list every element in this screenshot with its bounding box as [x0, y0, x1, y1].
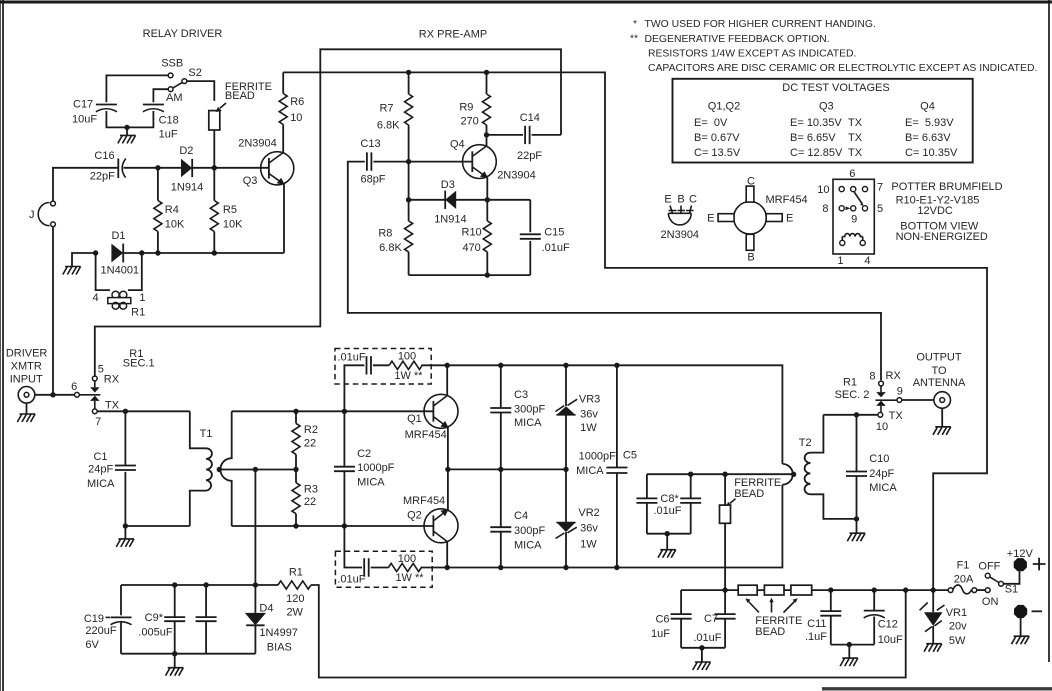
svg-text:1000pF: 1000pF — [357, 462, 395, 474]
svg-text:C19: C19 — [84, 613, 104, 625]
svg-text:S2: S2 — [188, 67, 201, 79]
junction ferrite bead line — [722, 472, 727, 477]
svg-text:E= 5.93V: E= 5.93V — [905, 117, 954, 129]
svg-text:R10: R10 — [462, 227, 482, 239]
svg-text:E: E — [786, 213, 793, 225]
+12V power rail wire — [283, 72, 987, 590]
svg-text:MRF454: MRF454 — [403, 495, 445, 507]
transformer T2 primary hop — [782, 464, 792, 485]
bias top rail — [121, 584, 278, 586]
wire R9 junction to C14 — [487, 134, 524, 136]
svg-text:C: C — [689, 194, 697, 206]
svg-text:1W **: 1W ** — [395, 572, 424, 584]
svg-text:RESISTORS 1/4W EXCEPT AS INDIC: RESISTORS 1/4W EXCEPT AS INDICATED. — [648, 48, 856, 59]
svg-text:5W: 5W — [949, 635, 966, 647]
resistor R1 bias — [278, 581, 311, 589]
svg-text:MICA: MICA — [357, 476, 385, 488]
svg-text:24pF: 24pF — [88, 464, 113, 476]
relay sec1 armature arrows — [79, 381, 100, 409]
svg-text:MRF454: MRF454 — [766, 194, 808, 206]
transformer T2 secondary — [805, 415, 857, 519]
capacitor C6 — [671, 590, 692, 648]
capacitor C9 — [164, 585, 185, 654]
svg-text:B: B — [677, 194, 684, 206]
svg-text:1N914: 1N914 — [171, 182, 203, 194]
C19 leader — [106, 616, 111, 618]
junction Q4 emitter / R10 — [485, 197, 490, 202]
wire R1 to bottom feed — [311, 585, 906, 678]
svg-text:INPUT: INPUT — [10, 373, 43, 385]
svg-text:.01uF: .01uF — [693, 632, 721, 644]
junction R4 bottom — [155, 250, 160, 255]
svg-text:1W: 1W — [580, 422, 597, 434]
Q2 collector wire — [446, 542, 448, 568]
capacitor C13 — [367, 152, 372, 170]
ground below C8 — [666, 534, 668, 550]
junction emitters — [445, 467, 450, 472]
junction R7 top — [406, 70, 411, 75]
svg-text:SEC.1: SEC.1 — [123, 357, 155, 369]
junction bead/D2 — [212, 165, 217, 170]
svg-text:C2: C2 — [357, 448, 371, 460]
relay R1 sec1 contact 6 — [75, 392, 80, 397]
svg-text:R3: R3 — [304, 483, 318, 495]
diode D2 — [181, 159, 192, 177]
svg-text:TO: TO — [931, 365, 947, 377]
transformer T1 primary — [190, 411, 212, 526]
capacitor C10 — [846, 415, 867, 519]
svg-text:6.8K: 6.8K — [379, 242, 402, 254]
zener VR2 — [556, 469, 577, 567]
svg-text:C18: C18 — [159, 114, 179, 126]
wire preamp output loop (C14 to relay RX contact 5) — [95, 49, 561, 378]
svg-text:B: B — [747, 252, 754, 264]
zener VR1 — [920, 590, 945, 644]
svg-text:+12V: +12V — [1007, 548, 1034, 560]
svg-text:D4: D4 — [259, 602, 273, 614]
wire C13 to Q4 base — [373, 161, 472, 163]
wire S1 to +12V terminal — [1003, 571, 1019, 584]
TX wire contact7 to T1 — [97, 410, 190, 412]
ground below C1 — [124, 526, 126, 539]
svg-text:Q3: Q3 — [243, 175, 258, 187]
wire bead line down — [724, 474, 726, 590]
svg-text:.01uF: .01uF — [542, 242, 570, 254]
svg-text:6: 6 — [71, 381, 77, 393]
svg-text:C11: C11 — [807, 618, 826, 630]
bottom shadow bar — [822, 687, 1052, 690]
resistor R8 — [408, 200, 410, 275]
junction C11 top — [828, 587, 833, 592]
svg-text:120: 120 — [286, 593, 304, 605]
junction C7/bead line — [722, 587, 727, 592]
relay R1 sec2 contact 9 — [897, 398, 902, 403]
junction R2 top — [293, 409, 298, 414]
switch S2 wire to SSB contact — [106, 75, 168, 102]
svg-text:Q4: Q4 — [920, 101, 935, 113]
capacitor C19 — [111, 585, 132, 654]
ferrite bead 2 — [764, 585, 784, 595]
svg-text:5: 5 — [877, 203, 883, 215]
resistor R5 — [213, 168, 215, 253]
svg-text:**: ** — [630, 34, 638, 45]
svg-text:VR2: VR2 — [578, 507, 599, 519]
+12V feed wire — [681, 589, 948, 591]
capacitor C17 — [96, 105, 117, 112]
svg-text:TX: TX — [105, 399, 120, 411]
upper feedback dashed box — [335, 349, 431, 385]
svg-text:10uF: 10uF — [878, 634, 903, 646]
svg-text:8: 8 — [869, 371, 875, 383]
svg-text:10K: 10K — [223, 219, 243, 231]
svg-text:22: 22 — [304, 438, 316, 450]
svg-text:C10: C10 — [869, 453, 889, 465]
svg-text:R1: R1 — [289, 567, 303, 579]
svg-text:.01uF: .01uF — [338, 352, 366, 364]
terminal minus — [1014, 605, 1027, 618]
connector J terminal bottom — [51, 222, 56, 227]
junction D4 top — [253, 582, 258, 587]
svg-text:SEC. 2: SEC. 2 — [835, 389, 870, 401]
capacitor C8 left — [636, 474, 657, 534]
relay R1 sec1 contact 7 — [92, 409, 97, 414]
transformer T1 secondary — [220, 411, 231, 526]
junction bottom feed loop — [903, 587, 908, 592]
svg-text:BEAD: BEAD — [755, 626, 785, 638]
svg-text:E= 0V: E= 0V — [694, 117, 728, 129]
svg-text:CAPACITORS ARE DISC CERAMIC OR: CAPACITORS ARE DISC CERAMIC OR ELECTROLY… — [648, 63, 1037, 74]
C11/C12 bottom wire — [831, 644, 874, 646]
svg-text:R9: R9 — [459, 102, 473, 114]
junction C11/C12 ground — [847, 642, 852, 647]
wire bias feed down — [254, 470, 256, 586]
relay coil R1 legs — [96, 253, 142, 290]
svg-text:F1: F1 — [957, 559, 970, 571]
ground below C11/C12 — [848, 645, 850, 659]
junction C13/R7 — [406, 159, 411, 164]
svg-text:1W **: 1W ** — [394, 370, 423, 382]
junction C12 top — [872, 587, 877, 592]
ground below VR1 — [924, 644, 942, 652]
ground left — [63, 267, 81, 275]
connector J arc — [38, 203, 49, 226]
resistor R2 — [295, 411, 297, 469]
svg-text:C4: C4 — [514, 510, 528, 522]
capacitor C5 — [606, 365, 627, 567]
ground below C17/C18 — [126, 127, 128, 135]
svg-text:R1: R1 — [843, 377, 857, 389]
svg-text:7: 7 — [877, 182, 883, 194]
Q1 emitter wire — [447, 428, 449, 470]
svg-text:ON: ON — [982, 596, 999, 608]
svg-text:C16: C16 — [94, 150, 114, 162]
junction bias ground — [172, 651, 177, 656]
junction C8 right cap — [688, 472, 693, 477]
lower feedback dashed box — [335, 551, 432, 587]
svg-text:Q1,Q2: Q1,Q2 — [708, 101, 740, 113]
resistor R4 — [157, 168, 159, 253]
svg-text:22pF: 22pF — [90, 170, 115, 182]
svg-text:MICA: MICA — [514, 417, 542, 429]
svg-text:SSB: SSB — [161, 58, 183, 70]
svg-text:XMTR: XMTR — [11, 360, 42, 372]
junction C9 top — [172, 582, 177, 587]
minus sign — [1032, 610, 1042, 612]
capacitor C1 — [115, 411, 136, 526]
svg-text:C13: C13 — [360, 138, 380, 150]
junction R5 bottom — [212, 250, 217, 255]
diode D1 — [111, 244, 123, 263]
transistor Q3 — [261, 152, 294, 253]
svg-text:FERRITE: FERRITE — [734, 477, 781, 489]
switch S1 common contact — [999, 581, 1004, 586]
capacitor C16 — [118, 159, 126, 179]
svg-text:300pF: 300pF — [514, 525, 545, 537]
svg-text:36v: 36v — [580, 522, 598, 534]
svg-text:C12: C12 — [878, 618, 898, 630]
svg-text:Q4: Q4 — [450, 139, 465, 151]
svg-text:DC TEST VOLTAGES: DC TEST VOLTAGES — [782, 82, 889, 94]
svg-text:DEGENERATIVE FEEDBACK OPTION.: DEGENERATIVE FEEDBACK OPTION. — [645, 34, 830, 45]
svg-text:20v: 20v — [949, 621, 967, 633]
svg-text:R6: R6 — [290, 96, 304, 108]
svg-text:C8*: C8* — [660, 493, 679, 505]
resistor R10 — [486, 200, 488, 275]
resistor R7 — [408, 72, 410, 161]
svg-text:1N4997: 1N4997 — [259, 627, 298, 639]
capacitor C4 — [490, 469, 511, 567]
svg-text:D2: D2 — [179, 145, 193, 157]
switch S2 lever — [173, 82, 182, 88]
svg-text:RX: RX — [886, 370, 902, 382]
lower feedback capacitor .01uF — [364, 558, 369, 576]
svg-text:2N3904: 2N3904 — [661, 229, 700, 241]
ground below T2/C10 — [856, 519, 858, 533]
svg-text:C7: C7 — [704, 613, 718, 625]
svg-text:MICA: MICA — [514, 540, 542, 552]
junction C3 bottom — [498, 467, 503, 472]
svg-text:Q1: Q1 — [407, 413, 422, 425]
wire bead to D2 junction — [213, 130, 215, 168]
relay coil R1 — [108, 291, 131, 309]
svg-text:B= 6.63V: B= 6.63V — [905, 132, 951, 144]
svg-text:1uF: 1uF — [159, 129, 178, 141]
connector J terminal top — [51, 201, 56, 206]
svg-text:C17: C17 — [73, 98, 93, 110]
svg-text:C= 13.5V: C= 13.5V — [694, 147, 741, 159]
junction D1 cathode — [139, 250, 144, 255]
plus sign — [1033, 558, 1046, 571]
MRF454 pinout drawing — [707, 176, 808, 264]
svg-text:6: 6 — [849, 168, 855, 180]
label R1 SEC.1 — [123, 348, 155, 369]
svg-text:Q2: Q2 — [407, 510, 422, 522]
junction bias feed — [253, 467, 258, 472]
arrow to ferrite bead — [220, 103, 226, 108]
antenna connector — [934, 392, 951, 409]
capacitor C2 — [334, 411, 355, 526]
junction J line — [50, 392, 55, 397]
svg-text:D1: D1 — [111, 230, 125, 242]
relay R1 sec1 contact 5 — [92, 376, 97, 381]
svg-text:R5: R5 — [223, 204, 237, 216]
resistor R9 — [486, 72, 488, 134]
label DRIVER XMTR INPUT — [6, 347, 48, 385]
junction VR1 top — [931, 587, 936, 592]
DC test voltages table — [673, 79, 973, 163]
svg-text:NON-ENERGIZED: NON-ENERGIZED — [896, 231, 988, 243]
ground below C6/C7 — [701, 648, 703, 662]
Q1 collector wire — [446, 365, 448, 395]
wire D2 to Q3 base — [192, 167, 269, 169]
svg-text:10K: 10K — [165, 219, 185, 231]
C8 bottom wire — [647, 533, 691, 535]
wire C14 to loop — [532, 134, 561, 136]
svg-text:POTTER BRUMFIELD: POTTER BRUMFIELD — [891, 181, 1002, 193]
svg-text:220uF: 220uF — [85, 625, 116, 637]
junction C10 bottom — [854, 516, 859, 521]
switch S1 contact ON — [985, 588, 990, 593]
svg-text:100: 100 — [398, 350, 416, 362]
T1 center tap junction — [217, 467, 222, 472]
capacitor C11 — [820, 590, 841, 645]
svg-text:.005uF: .005uF — [138, 626, 173, 638]
ferrite bead 3 — [791, 585, 812, 595]
svg-text:470: 470 — [462, 242, 480, 254]
svg-text:8: 8 — [822, 203, 828, 215]
junction C2 bottom — [342, 523, 347, 528]
switch S2 pivot contact — [182, 79, 187, 84]
svg-text:1: 1 — [837, 255, 843, 267]
svg-text:T2: T2 — [799, 437, 812, 449]
svg-text:C14: C14 — [520, 112, 540, 124]
svg-text:1: 1 — [139, 292, 145, 304]
upper feedback wire — [344, 365, 447, 411]
svg-text:1W: 1W — [580, 538, 597, 550]
svg-text:ANTENNA: ANTENNA — [913, 377, 966, 389]
junction C6/C7 ground — [699, 645, 704, 650]
svg-text:E: E — [664, 194, 671, 206]
capacitor C18 — [143, 105, 164, 112]
svg-text:10: 10 — [817, 184, 829, 196]
Q1 base wire — [232, 410, 433, 412]
svg-text:RX: RX — [104, 374, 120, 386]
svg-text:2N3904: 2N3904 — [497, 170, 536, 182]
wire R7 junction down to D3 rail — [408, 162, 410, 200]
switch S1 lever — [990, 577, 999, 582]
svg-text:7: 7 — [95, 416, 101, 428]
svg-text:TX: TX — [889, 410, 904, 422]
svg-text:J: J — [29, 209, 35, 221]
ferrite bead (relay driver) — [209, 111, 220, 130]
capacitor C15 — [520, 200, 541, 275]
capacitor C8 right — [680, 474, 701, 534]
svg-text:68pF: 68pF — [360, 173, 385, 185]
switch S2 contact SSB — [168, 73, 173, 78]
svg-text:AM: AM — [166, 92, 183, 104]
svg-text:OFF: OFF — [978, 560, 1000, 572]
svg-text:6V: 6V — [85, 639, 99, 651]
junction cap3 top — [203, 582, 208, 587]
svg-text:C6: C6 — [655, 613, 669, 625]
svg-text:R1: R1 — [131, 306, 145, 318]
switch S2 wire to ferrite bead — [187, 81, 215, 101]
svg-text:C= 12.85V: C= 12.85V — [790, 147, 843, 159]
diode D4 — [245, 585, 266, 654]
wire J down to input line — [52, 227, 54, 395]
svg-text:1N4001: 1N4001 — [101, 264, 140, 276]
switch S1 contact OFF — [985, 573, 990, 578]
T1 bottom wire to C1 — [125, 525, 189, 527]
junction C1 top — [123, 409, 128, 414]
svg-text:*: * — [633, 19, 637, 30]
svg-text:RELAY DRIVER: RELAY DRIVER — [143, 28, 223, 40]
svg-text:VR1: VR1 — [946, 607, 967, 619]
junction C5 top — [614, 363, 619, 368]
arrow to bead (T2 feed) — [730, 499, 736, 504]
capacitor C14 — [525, 126, 530, 144]
svg-text:4: 4 — [864, 255, 870, 267]
relay R1 sec2 contact 8 — [879, 381, 884, 386]
svg-text:MRF454: MRF454 — [405, 429, 447, 441]
wire contact9 to antenna connector — [902, 399, 934, 401]
svg-text:OUTPUT: OUTPUT — [916, 351, 962, 363]
svg-text:10: 10 — [876, 421, 888, 433]
ground below bias — [174, 654, 176, 668]
junction D3 left — [406, 197, 411, 202]
bottom collector rail — [447, 485, 782, 568]
transistor Q4 — [463, 135, 497, 200]
relay text block — [891, 181, 1002, 243]
svg-text:20A: 20A — [954, 573, 974, 585]
svg-text:MICA: MICA — [87, 478, 115, 490]
ground below input connector — [26, 403, 28, 414]
svg-text:2W: 2W — [286, 606, 303, 618]
svg-text:TWO USED FOR HIGHER CURRENT HA: TWO USED FOR HIGHER CURRENT HANDING. — [645, 19, 876, 30]
capacitor unlabeled bias — [196, 585, 217, 654]
diode D3 — [445, 191, 456, 209]
svg-text:B= 6.65V: B= 6.65V — [790, 132, 836, 144]
svg-text:.1uF: .1uF — [805, 631, 827, 643]
junction VR2 bottom — [563, 565, 568, 570]
svg-text:VR3: VR3 — [579, 393, 600, 405]
svg-text:R4: R4 — [165, 204, 179, 216]
svg-text:TX: TX — [848, 132, 863, 144]
junction R2/R3 mid — [293, 467, 298, 472]
svg-text:E: E — [707, 213, 714, 225]
junction VR3/VR2 mid — [563, 467, 568, 472]
resistor R6 — [282, 72, 284, 152]
svg-text:2N3904: 2N3904 — [238, 137, 277, 149]
svg-text:BIAS: BIAS — [267, 642, 292, 654]
Q2 base wire — [232, 525, 433, 527]
svg-text:S1: S1 — [1005, 584, 1018, 596]
input connector — [18, 387, 35, 404]
svg-text:100: 100 — [398, 553, 416, 565]
emitter rail — [448, 468, 566, 470]
svg-text:MICA: MICA — [869, 482, 897, 494]
lower feedback wire — [344, 526, 447, 568]
wire J to C16 — [53, 168, 118, 201]
switch S2 wire from AM contact — [153, 89, 168, 102]
svg-text:C1: C1 — [93, 451, 107, 463]
top collector rail — [447, 365, 782, 464]
junction C4 bottom — [498, 565, 503, 570]
svg-text:24pF: 24pF — [869, 468, 894, 480]
svg-text:300pF: 300pF — [514, 403, 545, 415]
label OUTPUT TO ANTENNA — [913, 351, 966, 389]
svg-text:TX: TX — [848, 147, 863, 159]
